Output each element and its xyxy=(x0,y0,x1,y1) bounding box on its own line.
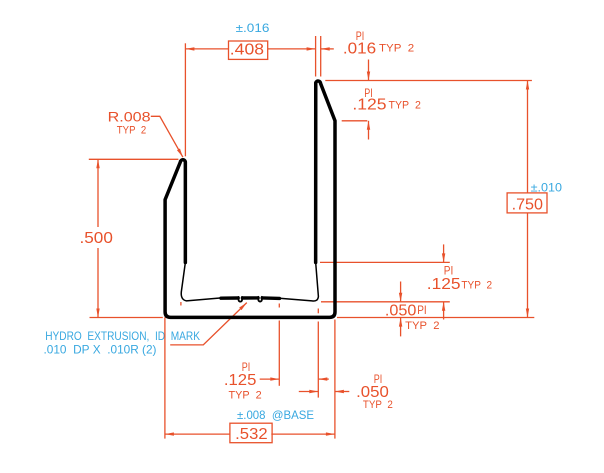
dimension .016 tip (right wall top) xyxy=(316,31,415,76)
svg-text:TYP 2: TYP 2 xyxy=(405,320,439,332)
left inner wall thin flare + fillet xyxy=(181,263,221,301)
svg-text:TYP 2: TYP 2 xyxy=(363,399,393,411)
svg-text:TYP 2: TYP 2 xyxy=(461,280,492,292)
svg-text:TYP 2: TYP 2 xyxy=(389,99,421,111)
svg-text:PI: PI xyxy=(417,305,427,317)
extrusion profile: outer contour + thick inner walls xyxy=(165,81,335,317)
svg-text:.125: .125 xyxy=(224,372,257,389)
dimension .500 left xyxy=(80,159,179,317)
dimension .408 top xyxy=(185,41,315,156)
svg-text:TYP 2: TYP 2 xyxy=(117,125,146,137)
leader + label R.008 TYP 2 xyxy=(108,109,183,158)
dimension .050 right (base thickness) xyxy=(385,282,440,337)
svg-text:TYP 2: TYP 2 xyxy=(379,43,414,55)
svg-text:.750: .750 xyxy=(512,197,544,214)
interior base middle with ID-mark notches xyxy=(221,296,280,300)
svg-text:.125: .125 xyxy=(427,276,461,293)
svg-text:.125: .125 xyxy=(352,97,386,114)
svg-text:±.016: ±.016 xyxy=(236,21,270,35)
svg-text:.050: .050 xyxy=(385,303,417,320)
leader ID mark xyxy=(170,303,247,345)
right inner wall thin flare + fillet xyxy=(280,263,319,301)
svg-text:±.008 @BASE: ±.008 @BASE xyxy=(237,408,314,422)
svg-text:±.010: ±.010 xyxy=(531,181,563,195)
svg-text:.010 DP X .010R (2): .010 DP X .010R (2) xyxy=(44,342,157,356)
dimension .125 upper right (wall taper) xyxy=(325,60,532,140)
svg-text:.532: .532 xyxy=(235,426,268,443)
dimension .050 bottom right xyxy=(299,374,393,411)
dimension .750 right xyxy=(337,81,547,318)
small dash left inner wall base xyxy=(180,302,182,306)
svg-text:.016: .016 xyxy=(343,41,376,58)
dimension .532 bottom xyxy=(165,317,335,443)
svg-text:.500: .500 xyxy=(80,230,113,247)
dimension .125 bottom center xyxy=(224,304,329,402)
svg-text:TYP 2: TYP 2 xyxy=(229,390,262,402)
svg-text:.408: .408 xyxy=(230,42,264,59)
svg-text:HYDRO EXTRUSION, ID MARK: HYDRO EXTRUSION, ID MARK xyxy=(45,329,200,343)
ID-mark notch 1 xyxy=(239,297,243,302)
svg-text:R.008: R.008 xyxy=(108,109,151,125)
ID-mark notch 2 xyxy=(258,297,262,302)
dimension .125 mid right xyxy=(320,244,492,319)
